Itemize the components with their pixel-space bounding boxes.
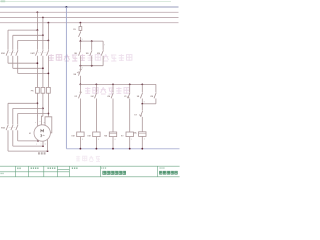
wire drop SB4 <box>141 84 143 92</box>
wire KT coil lead <box>129 99 131 133</box>
wire drop FR NC <box>79 84 81 92</box>
contactor KM2 pole2 contact <box>41 50 43 55</box>
wire coil5 down <box>141 136 143 148</box>
wire wrap3 stub <box>47 140 49 151</box>
wire column A drop <box>36 12 38 30</box>
wire KM1 pole2 top <box>12 35 14 50</box>
node box tl <box>80 40 82 42</box>
node box tm <box>91 40 93 42</box>
contactor KM3 pole3 contact <box>16 125 18 130</box>
wire box bottom <box>80 65 103 67</box>
wire join row2 <box>13 67 43 69</box>
wire control bus <box>80 83 155 85</box>
svg-text:8: 8 <box>82 68 83 70</box>
wire star bracket3 <box>18 113 49 115</box>
node star tee2 <box>42 108 44 110</box>
title text <box>103 171 126 174</box>
node bracket1 <box>37 29 39 31</box>
wire to bus <box>79 76 81 85</box>
wire column C drop <box>47 23 49 41</box>
wire KM1 pole2 bottom <box>12 56 14 69</box>
wire feed jog3 <box>45 117 48 126</box>
node tap L3 <box>48 22 50 24</box>
node bus b3 <box>129 84 131 86</box>
wire feed jog2 <box>41 116 43 125</box>
rail L3 <box>0 22 179 24</box>
KM1 linkage dashed <box>7 52 18 54</box>
rail L2 <box>0 17 179 19</box>
label under motor <box>38 152 46 154</box>
contact SB2 <box>79 50 81 55</box>
node bus start <box>80 84 82 86</box>
KM2 linkage dashed <box>36 52 48 54</box>
node bracket2 <box>42 34 44 36</box>
contact KT delay <box>128 93 130 99</box>
thermal relay FR element2 <box>41 87 45 93</box>
wire box leg1 bottom <box>79 56 81 66</box>
wire wrap row1 <box>18 140 38 142</box>
wire column A low <box>36 93 38 116</box>
wire drop KM1 aux2 <box>112 84 114 92</box>
wire wrap row2 <box>13 145 43 147</box>
wire coil3 down <box>112 137 114 149</box>
contactor KM1 pole2 contact <box>11 50 13 55</box>
KT delay arc <box>127 96 130 98</box>
page background <box>0 0 180 180</box>
node wrap2 <box>42 145 44 147</box>
watermark row 1 <box>49 54 86 61</box>
wire pair join <box>142 103 156 105</box>
wire wrap1 stub <box>37 140 39 141</box>
SB1 actuator <box>77 71 78 73</box>
disconnect switch contact <box>79 32 81 37</box>
wire b4 low <box>141 99 143 104</box>
wire join row3 <box>18 72 49 74</box>
wire KM3 coil lead <box>112 99 114 133</box>
node join2 <box>42 67 44 69</box>
KT delay2 arc <box>139 114 142 116</box>
node bracket3 <box>48 40 50 42</box>
wire KM1 pole3 bottom <box>17 56 19 74</box>
node star tee1 <box>37 102 39 104</box>
contact KM3 aux <box>95 93 97 99</box>
contact KT delay2 <box>140 111 142 117</box>
wire KM3 pole3 top <box>17 114 19 125</box>
wire coil1 down <box>79 137 81 149</box>
node N tap <box>65 6 67 8</box>
watermark row 3 (faint) <box>76 156 100 162</box>
motor letter M <box>41 130 44 133</box>
wire KM3 pole3 bottom <box>17 130 19 141</box>
rail N (blue) <box>0 6 179 8</box>
contactor KM1 pole1 contact <box>6 50 8 55</box>
frame top green line <box>0 1 171 3</box>
wire bracket row1 <box>8 29 37 31</box>
wire KM2 pole2 top <box>42 35 44 50</box>
contactor KM3 pole1 contact <box>6 125 8 130</box>
svg-text:KM: KM <box>72 135 75 137</box>
wire column B drop <box>42 18 44 36</box>
contact KM1 aux <box>101 50 103 55</box>
wire join row1 <box>8 62 37 64</box>
node join3 <box>48 73 50 75</box>
wire to box <box>79 37 81 41</box>
node wrap1 <box>37 140 39 142</box>
wire control drop <box>79 23 81 27</box>
wire column C low <box>47 93 49 117</box>
node bus b4 <box>141 84 143 86</box>
wire drop KM2 aux <box>155 84 157 92</box>
thermal relay FR element1 <box>36 87 40 93</box>
wire KM1 coil lead <box>79 99 81 133</box>
wire column A mid <box>36 56 38 88</box>
svg-text:KM: KM <box>104 135 107 137</box>
wire bracket row3 <box>18 40 49 42</box>
wire column B mid <box>42 56 44 88</box>
stop button SB1 <box>79 69 82 75</box>
wire box leg1 top <box>79 41 81 50</box>
node bus b1 <box>96 84 98 86</box>
node pair join <box>141 103 143 105</box>
wire to delay2 <box>141 104 143 111</box>
wire box leg3 bottom <box>102 56 104 66</box>
wire N vertical (blue) <box>65 7 67 149</box>
contact KM2 aux <box>154 93 156 99</box>
frame corner mark <box>1 0 6 2</box>
org text <box>160 171 178 174</box>
node rail c3 <box>112 148 114 150</box>
wire box leg2 top <box>91 41 93 50</box>
fuse FU <box>79 27 82 31</box>
wire KM3 pole2 bottom <box>12 130 14 146</box>
wire drop KT delay <box>129 84 131 92</box>
wire KM2 coil lead <box>95 99 97 133</box>
wire N bottom rail <box>66 148 179 150</box>
KM3 linkage dashed <box>7 126 18 128</box>
wire wrap2 stub <box>42 141 44 146</box>
wire drop KM3 aux <box>95 84 97 92</box>
wire KM2 pole1 top <box>36 30 38 50</box>
motor 3~ <box>40 134 44 137</box>
contact SB4 <box>140 93 142 99</box>
wire KM1 pole3 top <box>17 41 19 50</box>
wire star bracket2 <box>13 107 43 109</box>
node join1 <box>37 62 39 64</box>
wire KM1 pole1 bottom <box>7 56 9 63</box>
contactor KM1 pole3 contact <box>16 50 18 55</box>
wire KM3 pole1 top <box>7 103 9 124</box>
wire bracket row2 <box>13 34 43 36</box>
wire coil4 down <box>129 137 131 149</box>
wire box leg2 bottom <box>91 56 93 66</box>
wire KM3 pole2 top <box>12 108 14 124</box>
contact FR NC <box>79 92 82 98</box>
svg-text:9: 9 <box>144 102 145 104</box>
node rail c5 <box>141 148 143 150</box>
node bus b2 <box>112 84 114 86</box>
wire KM1 pole1 top <box>7 30 9 50</box>
wire box top <box>80 40 103 42</box>
wire KM3 pole1 bottom <box>7 130 9 151</box>
wire column C mid <box>47 56 49 88</box>
wire box leg3 top <box>102 41 104 50</box>
node rail c1 <box>80 148 82 150</box>
node box bl <box>80 65 82 67</box>
contactor KM2 pole3 contact <box>47 50 49 55</box>
wire feed jog1 <box>36 116 38 126</box>
coil KT <box>126 132 133 137</box>
contactor KM2 pole1 contact <box>36 50 38 55</box>
coil KA <box>139 132 146 137</box>
thermal relay FR element3 <box>47 87 51 93</box>
contact KM1 aux2 <box>111 93 113 99</box>
wire below box <box>79 66 81 70</box>
title block texts <box>17 168 20 170</box>
wire motor right side <box>48 117 51 133</box>
node wrap3 <box>47 150 49 152</box>
coil KM2 <box>93 132 100 137</box>
wire coil2 down <box>95 137 97 149</box>
svg-text:KM: KM <box>97 53 100 55</box>
wire b5 low <box>155 99 157 104</box>
node rail c4 <box>129 148 131 150</box>
motor M circle <box>34 125 50 141</box>
coil KM3 <box>109 132 116 137</box>
svg-text:KM: KM <box>88 135 91 137</box>
node control tap <box>80 22 82 24</box>
node star tee3 <box>48 113 50 115</box>
title block frame <box>0 166 180 177</box>
wire fu out <box>79 30 81 31</box>
rail L1 <box>0 11 179 13</box>
wire star bracket1 <box>8 102 37 104</box>
node rail c2 <box>96 148 98 150</box>
wire KM2 pole3 top <box>47 41 49 50</box>
wire wrap row3 <box>8 150 48 152</box>
contactor KM3 pole2 contact <box>11 125 13 130</box>
node box bm <box>91 65 93 67</box>
node tap L1 <box>37 11 39 13</box>
node tap L2 <box>42 17 44 19</box>
contact SB3 <box>90 50 92 55</box>
watermark row 2 <box>85 87 129 94</box>
coil KM1 <box>77 132 84 137</box>
wire to KA coil <box>141 117 143 132</box>
wire column B low <box>42 93 44 116</box>
